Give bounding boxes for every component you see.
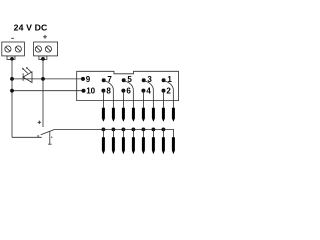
switch S1 blade bbox=[41, 129, 55, 134]
pin 9 bbox=[81, 75, 91, 84]
pin 10 bbox=[82, 86, 96, 95]
bus stub col3 bbox=[122, 129, 124, 138]
pin 4 bbox=[141, 86, 151, 95]
bus node col5 bbox=[142, 127, 146, 131]
wire to pin 10 bbox=[12, 90, 84, 92]
wire pin6 drop bbox=[122, 91, 124, 109]
wire minus bottom horizontal bbox=[12, 136, 42, 138]
supply arrow row2 col2 bbox=[112, 137, 115, 154]
screw X2.2 bbox=[45, 46, 51, 52]
X2 wire terminal dot bbox=[41, 57, 45, 61]
plus polarity mark bbox=[43, 35, 47, 39]
bus stub col6 bbox=[152, 129, 154, 138]
output arrow row1 col7 bbox=[162, 108, 165, 122]
pin 6 bbox=[121, 86, 131, 95]
output arrow row1 col2 bbox=[112, 108, 115, 122]
pin 5 bbox=[122, 75, 133, 84]
bus stub col4 bbox=[132, 129, 134, 138]
output arrow row1 col4 bbox=[132, 108, 135, 122]
wire to pin 9 bbox=[12, 78, 83, 80]
pin 7 bbox=[102, 75, 113, 84]
svg-text:2: 2 bbox=[166, 86, 171, 95]
bus node col7 bbox=[162, 127, 166, 131]
switch S1 direction arrow bbox=[51, 136, 53, 138]
bus node col3 bbox=[122, 127, 126, 131]
pin 8 bbox=[101, 86, 111, 95]
bus stub col5 bbox=[142, 129, 144, 138]
supply arrow row2 col3 bbox=[122, 137, 125, 154]
wire pin1 diagonal bbox=[164, 81, 174, 109]
supply arrow row2 col1 bbox=[102, 137, 105, 154]
supply bus wire bbox=[55, 129, 174, 138]
node minus / pin10 wire bbox=[10, 89, 14, 93]
node plus / pin9 wire bbox=[41, 77, 45, 81]
switch plus label bbox=[38, 121, 41, 124]
supply arrow row2 col6 bbox=[152, 137, 155, 154]
supply arrow row2 col8 bbox=[172, 137, 175, 154]
terminal block X2 (plus) bbox=[34, 42, 58, 56]
pin 1 bbox=[162, 75, 173, 84]
LED D1 bbox=[22, 67, 32, 83]
wire plus vertical bbox=[42, 59, 44, 128]
wire pin3 diagonal bbox=[144, 81, 153, 109]
wire minus vertical bbox=[11, 59, 13, 138]
svg-text:24 V DC: 24 V DC bbox=[14, 23, 48, 33]
pin 2 bbox=[162, 86, 172, 95]
bus stub col1 bbox=[102, 129, 104, 138]
wire pin8 drop bbox=[102, 91, 104, 109]
minus polarity mark bbox=[11, 37, 14, 39]
bus stub col7 bbox=[162, 129, 164, 138]
terminal block X1 (minus) bbox=[2, 42, 25, 56]
supply arrow row2 col5 bbox=[142, 137, 145, 154]
svg-text:4: 4 bbox=[146, 86, 151, 95]
bus node col6 bbox=[152, 127, 156, 131]
output arrow row1 col8 bbox=[172, 108, 175, 122]
screw X2.1 bbox=[35, 46, 41, 52]
screw X1.1 bbox=[5, 46, 11, 52]
terminal strip outline bbox=[77, 71, 179, 100]
bus node col2 bbox=[112, 127, 116, 131]
svg-text:9: 9 bbox=[86, 75, 91, 84]
node minus / pin9 wire bbox=[10, 77, 14, 81]
X2 wire entry tab bbox=[39, 56, 47, 60]
bus stub col2 bbox=[112, 129, 114, 138]
switch minus label bbox=[37, 135, 39, 137]
wire pin7 diagonal bbox=[104, 81, 113, 109]
wire pin5 diagonal bbox=[124, 81, 133, 109]
output arrow row1 col5 bbox=[142, 108, 145, 122]
svg-text:8: 8 bbox=[106, 86, 111, 95]
pin 3 bbox=[142, 75, 153, 84]
output arrow row1 col3 bbox=[122, 108, 125, 122]
screw X1.2 bbox=[15, 46, 21, 52]
wire pin4 drop bbox=[142, 91, 144, 109]
switch S1 actuator bbox=[48, 132, 52, 145]
supply arrow row2 col7 bbox=[162, 137, 165, 154]
wire pin2 drop bbox=[163, 91, 165, 109]
supply arrow row2 col4 bbox=[132, 137, 135, 154]
svg-text:6: 6 bbox=[126, 86, 131, 95]
output arrow row1 col1 bbox=[102, 108, 105, 122]
X1 wire terminal dot bbox=[10, 57, 14, 61]
X1 wire entry tab bbox=[7, 56, 15, 60]
output arrow row1 col6 bbox=[152, 108, 155, 122]
bus node col1 bbox=[102, 127, 106, 131]
bus node col4 bbox=[132, 127, 136, 131]
svg-text:10: 10 bbox=[86, 86, 95, 95]
